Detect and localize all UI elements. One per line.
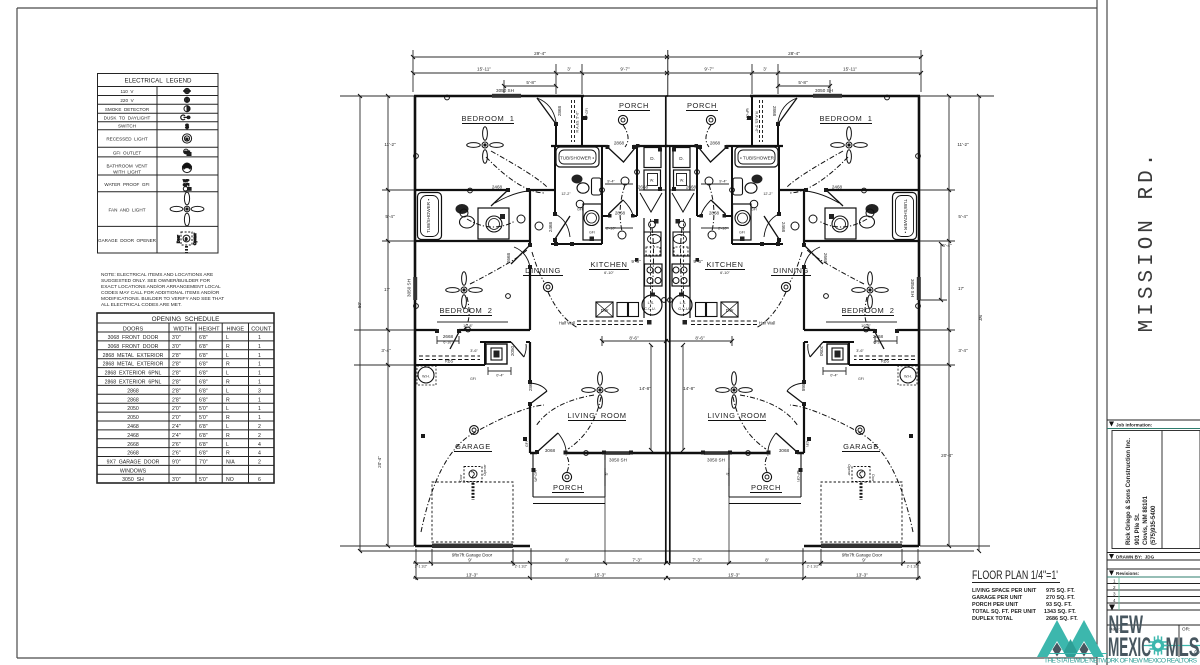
svg-text:WP GFI: WP GFI — [796, 470, 800, 481]
legend symbol smoke detector — [184, 106, 190, 112]
title block triangles — [1109, 422, 1115, 611]
svg-text:FAN AND LIGHT: FAN AND LIGHT — [108, 208, 145, 213]
svg-text:Door: Door — [459, 473, 463, 481]
svg-text:Job information:: Job information: — [1116, 423, 1153, 428]
svg-text:9'-6": 9'-6" — [631, 259, 641, 264]
svg-text:6'8": 6'8" — [199, 380, 208, 386]
legend symbol GFI outlet — [184, 149, 189, 154]
svg-text:8': 8' — [765, 558, 769, 563]
svg-text:5': 5' — [725, 473, 729, 476]
door window number labels — [407, 88, 916, 558]
svg-text:SMOKE DETECTOR: SMOKE DETECTOR — [105, 107, 150, 112]
svg-text:2'0": 2'0" — [172, 406, 181, 412]
svg-text:2868: 2868 — [801, 381, 806, 392]
svg-text:2050: 2050 — [127, 415, 139, 421]
svg-text:15'-11": 15'-11" — [477, 67, 491, 72]
svg-text:2668: 2668 — [443, 334, 454, 339]
svg-text:2668: 2668 — [506, 252, 511, 263]
svg-text:1: 1 — [258, 397, 261, 403]
svg-text:12'-2": 12'-2" — [561, 192, 571, 196]
svg-text:DRAWN BY: JDG: DRAWN BY: JDG — [1116, 555, 1155, 560]
svg-text:2'0": 2'0" — [172, 415, 181, 421]
svg-text:NOTE: ELECTRICAL ITEMS AND LOC: NOTE: ELECTRICAL ITEMS AND LOCATIONS ARE — [101, 272, 213, 278]
svg-text:L: L — [226, 353, 229, 359]
svg-text:2050: 2050 — [127, 406, 139, 412]
svg-text:3050 SH: 3050 SH — [910, 279, 915, 297]
svg-text:2'6": 2'6" — [172, 442, 181, 448]
svg-text:2868: 2868 — [709, 211, 720, 216]
svg-text:13'-3": 13'-3" — [466, 573, 478, 578]
svg-text:G.C.U.: G.C.U. — [678, 307, 690, 311]
svg-text:5'-4": 5'-4" — [958, 214, 968, 219]
svg-text:7'0": 7'0" — [199, 460, 208, 466]
svg-text:2668: 2668 — [127, 442, 139, 448]
svg-text:6'-10": 6'-10" — [873, 341, 883, 345]
svg-text:50': 50' — [978, 315, 983, 321]
svg-text:17': 17' — [958, 286, 964, 291]
svg-text:9'-7": 9'-7" — [620, 67, 630, 72]
svg-text:1: 1 — [258, 344, 261, 350]
svg-text:0'-4": 0'-4" — [830, 374, 838, 378]
legend symbol 110V outlet — [170, 88, 204, 252]
svg-text:SWITCH: SWITCH — [118, 124, 136, 129]
svg-text:WP GFI: WP GFI — [585, 108, 589, 119]
svg-text:TUB/SHOWER ▪: TUB/SHOWER ▪ — [426, 199, 431, 233]
svg-text:20'-4": 20'-4" — [941, 453, 953, 458]
svg-text:CODES MAY CALL FOR ADDITIONAL: CODES MAY CALL FOR ADDITIONAL ITEMS AND/… — [101, 290, 220, 296]
svg-text:6'8": 6'8" — [199, 424, 208, 430]
svg-text:ALL ELECTRICAL CODES ARE MET.: ALL ELECTRICAL CODES ARE MET. — [101, 302, 182, 308]
svg-text:5'0": 5'0" — [199, 406, 208, 412]
svg-text:2050: 2050 — [819, 346, 824, 357]
svg-text:6'8": 6'8" — [199, 442, 208, 448]
svg-text:PORCH: PORCH — [553, 483, 583, 492]
svg-text:2'4": 2'4" — [172, 424, 181, 430]
svg-text:4: 4 — [1113, 598, 1116, 603]
svg-text:3050 SH: 3050 SH — [407, 279, 412, 297]
svg-text:1: 1 — [258, 353, 261, 359]
svg-text:3068: 3068 — [545, 448, 556, 453]
svg-text:ELECTRICAL LEGEND: ELECTRICAL LEGEND — [124, 78, 192, 85]
svg-text:GARAGE: GARAGE — [843, 442, 879, 451]
svg-text:6'8": 6'8" — [199, 353, 208, 359]
svg-text:TUB/SHOWER ▪: TUB/SHOWER ▪ — [560, 156, 594, 161]
svg-text:2686 SQ. FT.: 2686 SQ. FT. — [1046, 616, 1078, 622]
svg-text:3'0": 3'0" — [172, 477, 181, 483]
svg-text:0'-4": 0'-4" — [496, 374, 504, 378]
svg-text:EXACT LOCATIONS AND/OR ARRANGE: EXACT LOCATIONS AND/OR ARRANGEMENT LOCAL — [101, 284, 221, 290]
svg-text:11'-2": 11'-2" — [957, 142, 969, 147]
legend symbol dusk to daylight — [181, 115, 191, 120]
svg-text:2668: 2668 — [127, 451, 139, 457]
svg-text:2'6": 2'6" — [172, 451, 181, 457]
svg-text:110 V: 110 V — [121, 89, 135, 94]
svg-text:5': 5' — [605, 472, 609, 475]
svg-text:GARAGE DOOR OPENER: GARAGE DOOR OPENER — [98, 238, 157, 243]
svg-text:R: R — [226, 344, 230, 350]
svg-text:GFI: GFI — [739, 231, 745, 235]
svg-text:2050: 2050 — [510, 345, 515, 356]
svg-text:8'-6": 8'-6" — [695, 336, 705, 341]
svg-text:2868 METAL EXTERIOR: 2868 METAL EXTERIOR — [103, 362, 164, 368]
svg-text:PORCH: PORCH — [687, 101, 717, 110]
svg-text:Revisions:: Revisions: — [1116, 571, 1140, 576]
svg-text:2468: 2468 — [127, 433, 139, 439]
legend symbol recessed light — [182, 134, 191, 143]
svg-text:901 Pile St.: 901 Pile St. — [1135, 513, 1141, 545]
svg-text:GFI: GFI — [805, 441, 809, 447]
svg-text:29'-4": 29'-4" — [534, 51, 546, 56]
svg-text:2: 2 — [258, 424, 261, 430]
svg-text:9'-4": 9'-4" — [719, 180, 727, 184]
svg-text:2668: 2668 — [823, 253, 828, 264]
svg-text:Opener: Opener — [847, 464, 851, 476]
svg-text:2'8": 2'8" — [172, 353, 181, 359]
svg-text:6'8": 6'8" — [199, 344, 208, 350]
svg-text:GFI: GFI — [858, 377, 864, 381]
svg-text:L: L — [226, 371, 229, 377]
svg-text:3'-4": 3'-4" — [958, 348, 968, 353]
svg-text:GFI: GFI — [577, 208, 583, 212]
svg-text:9X7 GARAGE DOOR: 9X7 GARAGE DOOR — [107, 460, 160, 466]
svg-text:DUSK TO DAYLIGHT: DUSK TO DAYLIGHT — [104, 116, 151, 121]
svg-text:R: R — [226, 362, 230, 368]
svg-text:10'-8": 10'-8" — [861, 324, 871, 328]
floor plan square footage table — [972, 588, 1078, 622]
svg-text:2: 2 — [1113, 585, 1116, 590]
svg-text:WINDOWS: WINDOWS — [120, 468, 147, 474]
svg-text:HINGE: HINGE — [226, 327, 244, 333]
svg-text:BEDROOM 2: BEDROOM 2 — [439, 306, 492, 315]
svg-text:2468: 2468 — [127, 424, 139, 430]
svg-text:WATER PROOF GFI: WATER PROOF GFI — [104, 182, 149, 187]
legend symbol bathroom vent — [182, 163, 191, 172]
svg-text:BATHROOM VENT: BATHROOM VENT — [106, 164, 147, 169]
svg-text:W.: W. — [680, 179, 684, 183]
svg-text:TOTAL SQ. FT. PER UNIT: TOTAL SQ. FT. PER UNIT — [972, 609, 1037, 615]
svg-text:Opener: Opener — [193, 232, 197, 245]
svg-text:4: 4 — [258, 451, 261, 457]
note paragraph — [101, 272, 224, 308]
svg-text:9'-6": 9'-6" — [693, 259, 703, 264]
svg-text:6: 6 — [258, 477, 261, 483]
svg-text:2468: 2468 — [781, 222, 786, 233]
svg-text:2868: 2868 — [528, 380, 533, 391]
svg-text:2868: 2868 — [710, 141, 721, 146]
svg-text:1: 1 — [258, 380, 261, 386]
svg-text:DINNING: DINNING — [773, 266, 809, 275]
svg-text:15'-11": 15'-11" — [843, 67, 857, 72]
svg-text:1: 1 — [1113, 579, 1116, 584]
svg-text:Opener: Opener — [483, 463, 487, 475]
svg-text:HEIGHT: HEIGHT — [198, 327, 220, 333]
svg-text:6'8": 6'8" — [199, 362, 208, 368]
svg-text:2868 EXTERIOR 6PNL: 2868 EXTERIOR 6PNL — [105, 380, 162, 386]
svg-text:6'8": 6'8" — [199, 371, 208, 377]
opening schedule text — [103, 316, 272, 483]
svg-text:OR:: OR: — [1182, 627, 1190, 632]
svg-text:20'-4": 20'-4" — [377, 456, 382, 468]
NMMLS zia symbol — [1149, 636, 1168, 656]
svg-text:1: 1 — [258, 406, 261, 412]
svg-text:2'-1 1/2": 2'-1 1/2" — [807, 565, 820, 569]
svg-text:3050 SH: 3050 SH — [496, 88, 514, 93]
svg-text:2868 EXTERIOR 6PNL: 2868 EXTERIOR 6PNL — [105, 371, 162, 377]
svg-text:3068: 3068 — [779, 448, 790, 453]
svg-text:DUPLEX TOTAL: DUPLEX TOTAL — [972, 616, 1014, 622]
svg-text:2'8": 2'8" — [172, 388, 181, 394]
svg-text:Clovis, NM 88101: Clovis, NM 88101 — [1143, 495, 1149, 545]
svg-text:RECESSED LIGHT: RECESSED LIGHT — [106, 137, 148, 142]
svg-text:6'8": 6'8" — [199, 397, 208, 403]
svg-text:3050 SH: 3050 SH — [122, 477, 144, 483]
svg-text:2: 2 — [258, 433, 261, 439]
svg-text:10'-8": 10'-8" — [463, 324, 473, 328]
svg-text:2'8": 2'8" — [172, 371, 181, 377]
svg-text:9'-4": 9'-4" — [607, 180, 615, 184]
svg-text:8'-6": 8'-6" — [629, 336, 639, 341]
svg-text:2668: 2668 — [638, 185, 649, 190]
svg-text:WP GFI: WP GFI — [534, 470, 538, 481]
svg-text:6'8": 6'8" — [199, 433, 208, 439]
svg-text:7'-3": 7'-3" — [692, 558, 702, 563]
svg-text:1: 1 — [258, 371, 261, 377]
svg-text:17': 17' — [384, 287, 390, 292]
svg-text:3'-6": 3'-6" — [470, 349, 478, 353]
svg-text:FLOOR PLAN 1/4"=1': FLOOR PLAN 1/4"=1' — [972, 570, 1058, 582]
title block text — [1109, 423, 1190, 632]
svg-text:975 SQ. FT.: 975 SQ. FT. — [1046, 588, 1075, 594]
NMMLS logo text MEXICO MLS — [1108, 632, 1200, 662]
svg-text:RBS: RBS — [445, 359, 454, 364]
svg-text:L: L — [226, 388, 229, 394]
svg-text:BEDROOM 2: BEDROOM 2 — [841, 306, 894, 315]
svg-text:3068 FRONT DOOR: 3068 FRONT DOOR — [108, 344, 159, 350]
svg-text:R: R — [226, 415, 230, 421]
svg-text:LIVING SPACE PER UNIT: LIVING SPACE PER UNIT — [972, 588, 1037, 594]
svg-text:GFI: GFI — [525, 441, 529, 447]
svg-text:R.A.&S. 5'-6": R.A.&S. 5'-6" — [755, 112, 759, 134]
svg-text:2868 METAL EXTERIOR: 2868 METAL EXTERIOR — [103, 353, 164, 359]
svg-text:1343 SQ. FT.: 1343 SQ. FT. — [1044, 609, 1076, 615]
svg-text:COUNT: COUNT — [251, 327, 271, 333]
svg-text:TUB/SHOWER ▪: TUB/SHOWER ▪ — [903, 199, 908, 233]
svg-text:KITCHEN: KITCHEN — [706, 260, 743, 269]
svg-text:BEDROOM 1: BEDROOM 1 — [461, 114, 514, 123]
svg-text:220 V: 220 V — [120, 98, 134, 103]
svg-text:9'0": 9'0" — [172, 460, 181, 466]
svg-text:GARAGE: GARAGE — [455, 442, 491, 451]
svg-text:6'8": 6'8" — [199, 335, 208, 341]
svg-text:DOORS: DOORS — [123, 327, 144, 333]
svg-text:3050 SH: 3050 SH — [609, 458, 627, 463]
svg-text:BEDROOM 1: BEDROOM 1 — [819, 114, 872, 123]
svg-text:R: R — [226, 433, 230, 439]
dimension labels — [357, 51, 983, 578]
svg-text:MISSION RD.: MISSION RD. — [1136, 150, 1159, 333]
svg-text:L: L — [226, 442, 229, 448]
svg-text:3': 3' — [763, 67, 767, 72]
svg-text:RBS: RBS — [881, 359, 890, 364]
room label underlines — [440, 111, 894, 493]
svg-text:OPENING SCHEDULE: OPENING SCHEDULE — [152, 316, 220, 323]
svg-text:2'8": 2'8" — [172, 362, 181, 368]
svg-text:C.C.U.: C.C.U. — [644, 307, 655, 311]
svg-text:3'-6": 3'-6" — [856, 349, 864, 353]
svg-text:5'-8": 5'-8" — [798, 80, 808, 85]
svg-text:N/A: N/A — [226, 460, 235, 466]
legend row labels — [98, 78, 192, 244]
svg-text:Half Wall: Half Wall — [759, 321, 776, 326]
svg-text:GFI: GFI — [470, 377, 476, 381]
svg-text:3050 SH: 3050 SH — [815, 88, 833, 93]
svg-text:3068 FRONT DOOR: 3068 FRONT DOOR — [108, 335, 159, 341]
svg-text:L: L — [226, 406, 229, 412]
svg-text:6'-10": 6'-10" — [720, 271, 730, 275]
svg-text:9': 9' — [468, 558, 472, 563]
left unit geometry — [360, 50, 670, 580]
svg-text:4: 4 — [258, 442, 261, 448]
svg-text:2868: 2868 — [557, 105, 562, 116]
svg-text:6'-10": 6'-10" — [443, 341, 453, 345]
right unit geometry mirrored — [664, 50, 974, 580]
svg-text:R: R — [186, 136, 189, 141]
svg-text:Half Wall: Half Wall — [559, 321, 576, 326]
svg-text:LIVING ROOM: LIVING ROOM — [567, 411, 626, 420]
svg-text:15'-3": 15'-3" — [728, 573, 740, 578]
svg-text:SUGGESTED ONLY. SEE OWNER/BUIL: SUGGESTED ONLY. SEE OWNER/BUILDER FOR — [101, 278, 211, 284]
svg-text:3: 3 — [1113, 592, 1116, 597]
legend symbol garage door opener — [177, 232, 198, 253]
svg-text:PORCH: PORCH — [751, 483, 781, 492]
logo registered mark — [1195, 650, 1199, 654]
svg-text:L: L — [226, 335, 229, 341]
side dimension lines — [340, 96, 994, 551]
svg-text:1: 1 — [258, 415, 261, 421]
svg-text:9': 9' — [862, 558, 866, 563]
svg-text:15'-3": 15'-3" — [594, 573, 606, 578]
svg-text:D.: D. — [650, 156, 655, 161]
svg-text:R: R — [226, 380, 230, 386]
svg-text:50': 50' — [357, 302, 362, 308]
svg-text:2'-1 1/2": 2'-1 1/2" — [515, 565, 528, 569]
tagline rule — [1043, 653, 1107, 655]
svg-text:R: R — [226, 397, 230, 403]
svg-text:Door: Door — [177, 234, 181, 243]
svg-text:R: R — [226, 451, 230, 457]
svg-text:W.H.: W.H. — [422, 375, 430, 379]
svg-text:R.A.&S. 5'-6": R.A.&S. 5'-6" — [576, 111, 580, 133]
svg-text:KITCHEN: KITCHEN — [590, 260, 627, 269]
legend symbol fan and light — [170, 192, 204, 226]
svg-text:WP GFI: WP GFI — [745, 108, 749, 119]
svg-text:8': 8' — [565, 558, 569, 563]
svg-text:3'-4": 3'-4" — [381, 348, 391, 353]
svg-text:DW: DW — [726, 308, 734, 313]
svg-text:2'-10": 2'-10" — [606, 227, 616, 231]
svg-text:W.: W. — [650, 179, 654, 183]
room labels — [439, 101, 894, 492]
svg-text:L: L — [226, 424, 229, 430]
svg-text:2468: 2468 — [548, 221, 553, 232]
svg-text:12'-2": 12'-2" — [763, 192, 773, 196]
svg-text:3050 SH: 3050 SH — [707, 458, 725, 463]
svg-text:Rick Griego & Sons Constructio: Rick Griego & Sons Construction Inc. — [1126, 438, 1132, 545]
svg-text:5'-8": 5'-8" — [526, 80, 536, 85]
svg-text:5'0": 5'0" — [199, 477, 208, 483]
svg-text:3'0": 3'0" — [172, 335, 181, 341]
svg-text:3: 3 — [258, 388, 261, 394]
svg-text:6'8": 6'8" — [199, 451, 208, 457]
svg-text:MODIFICATIONS. BUILDER TO VERI: MODIFICATIONS. BUILDER TO VERIFY AND SEE… — [101, 296, 224, 302]
svg-text:DW: DW — [601, 308, 609, 313]
svg-text:2'-1 1/2": 2'-1 1/2" — [907, 565, 920, 569]
svg-text:2868: 2868 — [127, 397, 139, 403]
svg-text:GFI: GFI — [751, 208, 757, 212]
svg-text:▪ TUB/SHOWER: ▪ TUB/SHOWER — [740, 156, 775, 161]
svg-text:LIVING ROOM: LIVING ROOM — [707, 411, 766, 420]
svg-text:PORCH PER UNIT: PORCH PER UNIT — [972, 602, 1019, 608]
svg-text:1: 1 — [258, 362, 261, 368]
job info company vertical text — [1126, 438, 1157, 545]
svg-text:2'8": 2'8" — [172, 380, 181, 386]
svg-text:5'-4": 5'-4" — [385, 214, 395, 219]
electrical legend table — [98, 74, 219, 254]
svg-text:2668: 2668 — [686, 185, 697, 190]
side dimension ticks — [358, 94, 981, 553]
svg-text:2868: 2868 — [615, 211, 626, 216]
svg-text:Door: Door — [871, 474, 875, 482]
svg-text:2'-1 1/2": 2'-1 1/2" — [415, 565, 428, 569]
NMMLS logo mountains — [1037, 620, 1104, 657]
legend symbol 220V outlet — [184, 97, 189, 102]
svg-text:GARAGE PER UNIT: GARAGE PER UNIT — [972, 595, 1023, 601]
svg-text:9ftx7ft Garage Door: 9ftx7ft Garage Door — [452, 553, 493, 558]
svg-text:13'-3": 13'-3" — [856, 573, 868, 578]
svg-text:DINNING: DINNING — [525, 266, 561, 275]
title block job information header — [1107, 420, 1200, 657]
svg-text:6'8": 6'8" — [199, 388, 208, 394]
svg-text:WIDTH: WIDTH — [173, 327, 191, 333]
svg-text:WITH LIGHT: WITH LIGHT — [113, 170, 141, 175]
svg-text:3'0": 3'0" — [172, 344, 181, 350]
svg-text:5'0": 5'0" — [199, 415, 208, 421]
svg-text:11'-2": 11'-2" — [384, 142, 396, 147]
svg-text:2868: 2868 — [614, 141, 625, 146]
svg-text:THE STATEWIDE NETWORK OF NEW M: THE STATEWIDE NETWORK OF NEW MEXICO REAL… — [1044, 658, 1198, 665]
svg-text:PORCH: PORCH — [619, 101, 649, 110]
svg-text:9'-7": 9'-7" — [704, 67, 714, 72]
svg-text:93 SQ. FT.: 93 SQ. FT. — [1046, 602, 1072, 608]
svg-text:2868: 2868 — [127, 388, 139, 394]
top dimension lines — [413, 57, 922, 73]
svg-text:2'8": 2'8" — [172, 397, 181, 403]
svg-text:L.S.: L.S. — [648, 301, 655, 305]
svg-text:3': 3' — [567, 67, 571, 72]
svg-text:W.H.: W.H. — [904, 375, 912, 379]
svg-text:2'-10": 2'-10" — [718, 227, 728, 231]
svg-text:14'-8": 14'-8" — [639, 386, 651, 391]
center party wall — [666, 50, 670, 563]
NMMLS logo zia ray line — [1143, 645, 1200, 647]
svg-text:2468: 2468 — [492, 185, 503, 190]
svg-text:L.S.: L.S. — [680, 301, 687, 305]
svg-text:2468: 2468 — [832, 185, 843, 190]
svg-text:2'4": 2'4" — [172, 433, 181, 439]
svg-text:2668: 2668 — [873, 334, 884, 339]
svg-text:28'-4": 28'-4" — [788, 51, 800, 56]
svg-text:D.: D. — [679, 156, 684, 161]
